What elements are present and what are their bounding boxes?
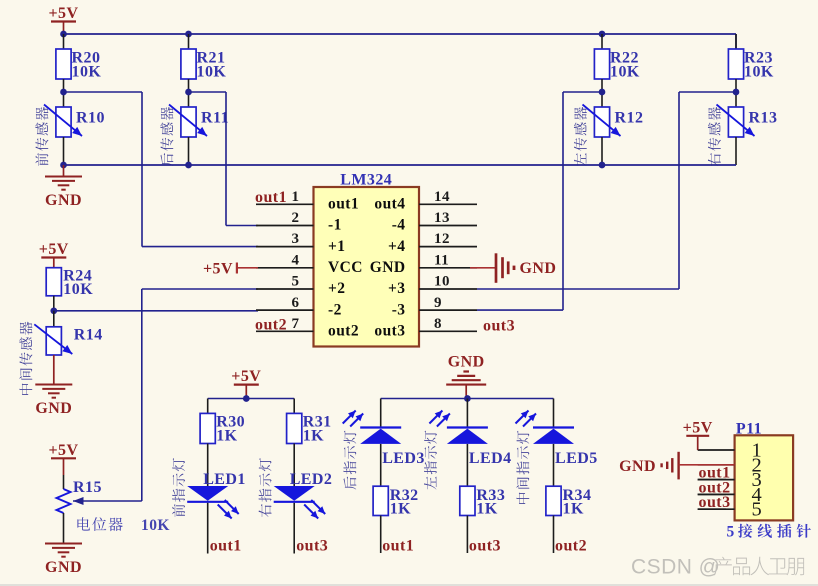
svg-text:13: 13 <box>434 210 450 226</box>
wire R22 to R12 <box>601 79 603 107</box>
label 后传感器 for R11 <box>160 107 173 166</box>
svg-text:10K: 10K <box>197 64 227 81</box>
svg-text:+5V: +5V <box>683 420 713 437</box>
pin 6 (-2) of LM324 <box>256 295 342 319</box>
+5V power symbol (top left) <box>48 5 78 34</box>
wire R23 to R13 <box>735 79 737 107</box>
svg-text:CSDN @: CSDN @ <box>631 556 720 579</box>
wire R20 top lead <box>63 34 65 49</box>
+5V power symbol (LED1/LED2) <box>231 368 261 398</box>
watermark CSDN @产品人卫朋 <box>631 556 804 579</box>
net label out3 at P11 pin 5 <box>698 494 731 511</box>
wire LED5 to R34 <box>553 444 555 486</box>
svg-text:-2: -2 <box>328 301 342 318</box>
net label out1 at P11 pin 3 <box>698 465 731 482</box>
LED LED2 <box>274 471 333 519</box>
op-amp U1 LM324 body <box>314 172 420 347</box>
svg-text:out3: out3 <box>296 538 328 555</box>
svg-text:GND: GND <box>45 559 82 576</box>
junction bottom rail at R12 <box>599 162 606 169</box>
wire R10 bottom lead <box>63 137 65 165</box>
wire rail to R30 <box>207 399 209 414</box>
svg-text:1: 1 <box>292 189 300 205</box>
junction GND rail at LED4 <box>464 395 471 402</box>
svg-text:out1: out1 <box>210 538 242 555</box>
svg-text:out1: out1 <box>328 196 359 213</box>
svg-text:out4: out4 <box>374 196 405 213</box>
svg-text:LED4: LED4 <box>469 450 512 467</box>
photoresistor R12 (左传感器) <box>583 105 644 138</box>
svg-text:+5V: +5V <box>39 241 69 258</box>
ground GND below R15 <box>45 513 82 576</box>
wire R13 node to op-amp pin 10 (+3) <box>477 92 736 289</box>
wire R24 node to op-amp pin 6 (-2) <box>54 310 258 312</box>
resistor R31 1K <box>287 413 332 444</box>
label 后指示灯 for LED3 <box>344 431 357 490</box>
label 电位器 10K for R15 <box>77 517 170 534</box>
svg-text:LM324: LM324 <box>340 172 392 189</box>
svg-text:out3: out3 <box>374 323 405 340</box>
svg-text:5: 5 <box>752 499 763 521</box>
svg-text:10K: 10K <box>610 64 640 81</box>
pin 4 of P11 <box>698 484 763 506</box>
pin 8 (out3) of LM324 <box>374 316 477 340</box>
wire rail to LED5 <box>553 399 555 428</box>
svg-text:+5V: +5V <box>48 5 78 22</box>
LED LED3 <box>343 411 425 468</box>
net label out2 at P11 pin 4 <box>698 479 731 496</box>
svg-text:10K: 10K <box>141 517 170 534</box>
svg-text:+5V: +5V <box>203 261 233 278</box>
svg-text:+1: +1 <box>328 238 345 255</box>
pin 2 of P11 <box>698 454 763 476</box>
junction node at R20/R10 <box>60 89 67 96</box>
pin 1 of P11 <box>698 440 763 462</box>
svg-text:R12: R12 <box>615 110 644 127</box>
svg-text:R10: R10 <box>76 110 105 127</box>
wire R31 to LED2 <box>293 444 295 487</box>
svg-text:10K: 10K <box>72 64 102 81</box>
svg-text:GND: GND <box>619 458 656 475</box>
svg-text:9: 9 <box>434 295 442 311</box>
resistor R20 10K <box>56 49 101 81</box>
svg-text:R15: R15 <box>73 479 102 496</box>
wire +5V rail for LED1/LED2 <box>208 398 295 400</box>
label 右传感器 for R13 <box>708 107 721 166</box>
svg-text:GND: GND <box>35 400 72 417</box>
wire LED2 to out3 <box>293 503 295 554</box>
svg-text:+3: +3 <box>388 280 405 297</box>
junction node at R22/R12 <box>599 89 606 96</box>
photoresistor R10 (前传感器) <box>44 105 105 138</box>
label 左指示灯 for LED4 <box>424 431 437 490</box>
svg-text:-3: -3 <box>392 301 406 318</box>
svg-text:8: 8 <box>434 316 442 332</box>
wire R21 to R11 <box>188 79 190 107</box>
svg-text:LED1: LED1 <box>203 471 246 488</box>
svg-text:-4: -4 <box>392 217 406 234</box>
svg-text:10: 10 <box>434 274 450 290</box>
wire LED3 to R32 <box>380 444 382 486</box>
pin 11 (GND) of LM324 <box>370 252 477 276</box>
junction node at R21/R11 <box>185 89 192 96</box>
ground GND at P11 pin 2 <box>619 452 735 480</box>
junction top rail at R21 <box>185 31 192 38</box>
+5V power symbol (R24) <box>39 241 69 268</box>
LED LED5 <box>516 411 598 468</box>
wire LED1 to out1 <box>207 503 209 554</box>
+5V power symbol (R15) <box>48 442 78 475</box>
wire R34 to out2 <box>553 516 555 554</box>
resistor R23 10K <box>728 49 774 81</box>
resistor R21 10K <box>181 49 227 81</box>
wire rail to LED3 <box>380 399 382 428</box>
svg-text:14: 14 <box>434 189 450 205</box>
pin 1 (out1) of LM324 <box>256 189 359 213</box>
svg-text:-1: -1 <box>328 217 342 234</box>
junction bottom rail at R11 <box>185 162 192 169</box>
wire R10 node to op-amp pin 3 (+1) <box>64 92 259 247</box>
label 5接线插针 below P11 <box>727 523 811 540</box>
svg-text:P11: P11 <box>736 421 762 438</box>
label 前指示灯 for LED1 <box>172 458 185 517</box>
resistor R30 1K <box>200 413 245 444</box>
svg-text:R13: R13 <box>749 110 778 127</box>
photoresistor R14 (中间传感器) <box>34 311 102 355</box>
bottom edge line <box>0 584 818 586</box>
svg-text:4: 4 <box>292 252 300 268</box>
svg-text:1K: 1K <box>476 501 497 518</box>
svg-text:GND: GND <box>370 259 406 276</box>
svg-text:LED5: LED5 <box>555 450 598 467</box>
pin 3 of P11 <box>698 469 763 491</box>
svg-text:+5V: +5V <box>48 442 78 459</box>
wire GND rail for LED3-LED5 <box>381 398 554 400</box>
svg-text:GND: GND <box>520 260 557 277</box>
svg-text:out2: out2 <box>328 323 359 340</box>
svg-text:GND: GND <box>448 354 485 371</box>
svg-text:12: 12 <box>434 231 450 247</box>
wire R12 bottom lead <box>601 137 603 165</box>
svg-text:5: 5 <box>727 523 735 540</box>
wire R23 top lead <box>735 34 737 49</box>
pin 13 (-4) of LM324 <box>392 210 477 234</box>
ground GND below R10 <box>45 165 82 209</box>
pin 5 of P11 <box>698 499 763 521</box>
LED LED4 <box>429 411 511 468</box>
wire R13 bottom lead <box>735 137 737 165</box>
svg-text:1K: 1K <box>216 428 237 445</box>
junction node at R23/R13 <box>733 89 740 96</box>
svg-text:7: 7 <box>292 316 300 332</box>
pin 10 (+3) of LM324 <box>388 274 477 298</box>
ground GND below R14 <box>35 355 72 417</box>
svg-text:5: 5 <box>292 274 300 290</box>
svg-text:+5V: +5V <box>231 368 261 385</box>
svg-text:R14: R14 <box>74 327 103 344</box>
svg-text:6: 6 <box>292 295 300 311</box>
svg-text:LED2: LED2 <box>290 471 333 488</box>
svg-text:VCC: VCC <box>328 259 363 276</box>
ground GND at pin 11 <box>470 253 556 282</box>
wire R11 bottom lead <box>188 137 190 165</box>
svg-text:out3: out3 <box>469 538 501 555</box>
label 右指示灯 for LED2 <box>259 458 272 517</box>
wire R33 to out3 <box>466 516 468 554</box>
svg-text:10K: 10K <box>744 64 774 81</box>
+5V power symbol at pin 4 (VCC) <box>203 261 258 278</box>
junction bottom rail at R10 <box>60 162 67 169</box>
svg-text:2: 2 <box>292 210 300 226</box>
wire sensors bottom ground rail <box>64 164 737 166</box>
svg-text:LED3: LED3 <box>382 450 425 467</box>
resistor R22 10K <box>594 49 640 81</box>
svg-text:10K: 10K <box>63 281 93 298</box>
wire R21 top lead <box>188 34 190 49</box>
photoresistor R11 (后传感器) <box>169 105 229 138</box>
wire R23 branch from top rail <box>735 34 737 49</box>
label 前传感器 for R10 <box>35 107 48 166</box>
svg-text:out2: out2 <box>255 316 287 333</box>
junction top rail at R20 <box>60 31 67 38</box>
svg-text:GND: GND <box>45 192 82 209</box>
pin 2 (-1) of LM324 <box>256 210 342 234</box>
svg-text:out1: out1 <box>255 189 287 206</box>
label 中间传感器 for R14 <box>19 322 32 395</box>
label 中间指示灯 for LED5 <box>516 431 529 504</box>
svg-text:1K: 1K <box>303 428 324 445</box>
pin 12 (+4) of LM324 <box>388 231 477 255</box>
svg-text:+4: +4 <box>388 238 405 255</box>
wire R11 node to op-amp pin 2 (-1) <box>189 92 259 226</box>
resistor R33 1K <box>460 486 506 517</box>
resistor R32 1K <box>373 486 419 517</box>
pin 9 (-3) of LM324 <box>392 295 477 319</box>
svg-text:3: 3 <box>292 231 300 247</box>
svg-text:out1: out1 <box>382 538 414 555</box>
svg-text:+2: +2 <box>328 280 345 297</box>
resistor R34 1K <box>546 486 592 517</box>
wire R30 to LED1 <box>207 444 209 487</box>
svg-text:out2: out2 <box>555 538 587 555</box>
wire +5V top rail <box>64 33 737 35</box>
wire LED4 to R33 <box>466 444 468 486</box>
pin 4 (VCC) of LM324 <box>256 252 363 276</box>
wire R15 wiper to op-amp pin 5 (+2) <box>73 289 258 505</box>
photoresistor R13 (右传感器) <box>717 105 778 138</box>
svg-text:R11: R11 <box>201 110 229 127</box>
junction R24/R14 node <box>53 296 55 311</box>
svg-text:1K: 1K <box>390 501 411 518</box>
connector P11 body <box>735 421 794 521</box>
wire R32 to out1 <box>380 516 382 554</box>
wire R12 node to op-amp pin 9 (-3) <box>477 92 602 310</box>
pin 5 (+2) of LM324 <box>256 274 345 298</box>
svg-text:out3: out3 <box>483 317 515 334</box>
potentiometer R15 (zigzag) <box>57 475 102 513</box>
wire R20 to R10 <box>63 79 65 107</box>
svg-text:11: 11 <box>434 252 449 268</box>
resistor R24 10K <box>46 268 93 299</box>
wire rail to LED4 <box>466 399 468 428</box>
pin 3 (+1) of LM324 <box>256 231 345 255</box>
junction top rail at R22 <box>599 31 606 38</box>
ground GND above LED3-LED5 <box>446 354 486 399</box>
+5V power symbol at P11 pin 1 <box>683 420 713 450</box>
wire rail to R31 <box>293 399 295 414</box>
wire R22 top lead <box>601 34 603 49</box>
LED LED1 <box>187 471 246 519</box>
label 左传感器 for R12 <box>574 107 587 166</box>
svg-text:1K: 1K <box>563 501 584 518</box>
pin 14 (out4) of LM324 <box>374 189 477 213</box>
junction LED rail <box>243 395 250 402</box>
pin 7 (out2) of LM324 <box>256 316 359 340</box>
